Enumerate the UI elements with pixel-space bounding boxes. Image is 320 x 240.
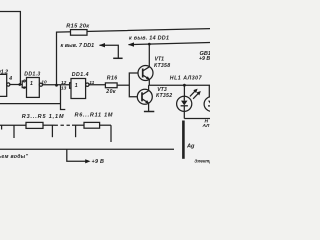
svg-text:DD1.4: DD1.4 xyxy=(72,72,89,78)
svg-text:Ag: Ag xyxy=(186,144,195,150)
svg-text:13: 13 xyxy=(61,85,67,91)
svg-text:11: 11 xyxy=(89,80,94,86)
svg-text:12: 12 xyxy=(61,80,67,86)
svg-text:R16: R16 xyxy=(107,76,118,82)
svg-text:DD1.3: DD1.3 xyxy=(24,71,40,77)
svg-text:20к: 20к xyxy=(105,89,116,95)
svg-text:Электрод: Электрод xyxy=(194,159,210,164)
svg-text:10: 10 xyxy=(41,80,47,86)
svg-text:к выв. 14 DD1: к выв. 14 DD1 xyxy=(129,36,169,42)
svg-text:4: 4 xyxy=(8,76,12,82)
svg-text:ьем воды”: ьем воды” xyxy=(0,154,28,160)
svg-text:D1.2: D1.2 xyxy=(0,69,8,75)
svg-text:к выв. 7 DD1: к выв. 7 DD1 xyxy=(61,43,95,49)
svg-text:+9 В: +9 В xyxy=(199,56,210,62)
svg-text:R3...R5 1,1М: R3...R5 1,1М xyxy=(22,114,65,120)
svg-text:АЛ: АЛ xyxy=(202,123,211,129)
svg-text:HL1 АЛ307: HL1 АЛ307 xyxy=(170,76,203,82)
svg-text:КТ358: КТ358 xyxy=(154,63,170,69)
svg-text:1: 1 xyxy=(30,81,33,87)
svg-text:КТ352: КТ352 xyxy=(156,93,172,99)
svg-text:+9 В: +9 В xyxy=(92,159,105,165)
svg-text:R15 20к: R15 20к xyxy=(66,24,90,30)
svg-text:VT1: VT1 xyxy=(155,57,165,63)
svg-text:8: 8 xyxy=(23,78,26,84)
svg-text:R6...R11 1М: R6...R11 1М xyxy=(75,113,114,119)
svg-text:1: 1 xyxy=(75,83,78,89)
svg-text:9: 9 xyxy=(23,85,26,91)
